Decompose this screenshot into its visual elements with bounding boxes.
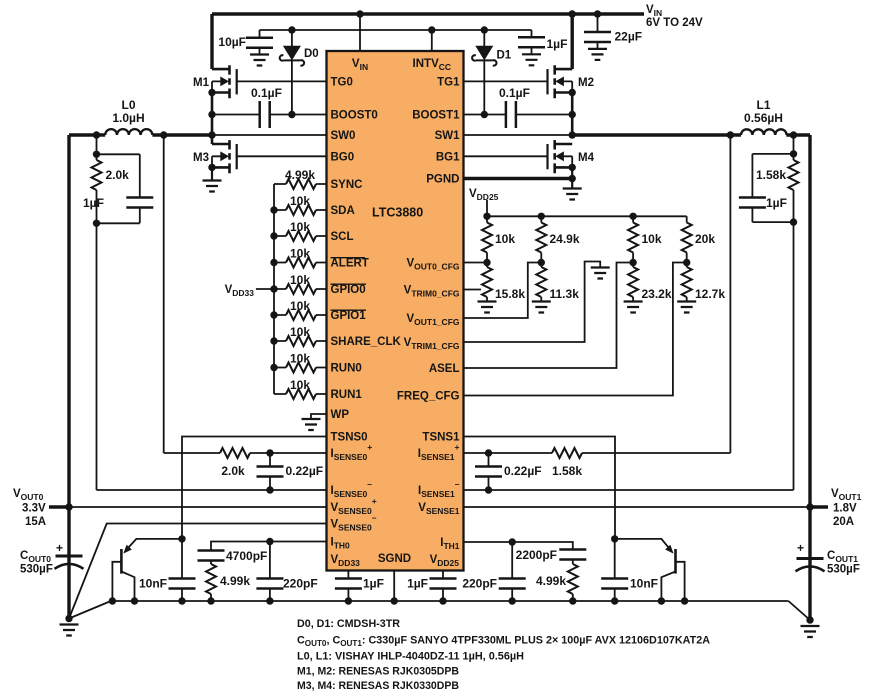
resistor 1.58k L1 [793,154,795,222]
resistor 10k GPIO1 [274,314,327,316]
wire L1 sense to ISENSE1- [793,222,795,490]
resistor 4.99k right [572,560,574,602]
node 22uF junction [594,10,601,17]
svg-text:SHARE_CLK: SHARE_CLK [331,336,402,348]
svg-text:4.99k: 4.99k [220,574,250,588]
capacitor 1uF L0 [139,154,141,223]
svg-text:23.2k: 23.2k [642,287,672,301]
wire D1 cathode to BOOST1 [483,60,485,114]
svg-text:1.8V: 1.8V [833,503,857,515]
capacitor 1uF VDD25 [442,571,444,602]
wire ISENSE1+ row [464,452,731,454]
wire ISENSE0+ row [164,452,327,454]
svg-text:VIN: VIN [646,4,662,18]
resistor 10k SDA [274,209,327,211]
svg-text:10k: 10k [290,194,310,208]
resistor 15.8k [486,263,488,302]
node COUT0 ground junction [65,615,72,622]
wire VIN pin [359,14,361,51]
svg-text:4.99k: 4.99k [536,574,566,588]
svg-text:6V TO 24V: 6V TO 24V [646,17,703,29]
svg-text:VDD33: VDD33 [225,284,255,298]
wire TG0 [237,80,327,82]
wire VTRIM0_CFG stub [464,289,482,291]
wire VOUT1_CFG [464,263,542,319]
svg-text:D1: D1 [497,50,512,62]
wire VOUT0_CFG [464,262,488,264]
svg-text:1µF: 1µF [547,37,568,51]
svg-text:12.7k: 12.7k [695,287,725,301]
svg-text:15.8k: 15.8k [495,287,525,301]
wire BG0 [237,155,327,157]
wire PGND thick [464,177,573,180]
resistor 4.99k left [210,561,212,602]
node SW0 M junction [208,131,215,138]
svg-text:BOOST0: BOOST0 [331,110,378,122]
resistor 10k ALERT [274,262,327,264]
svg-text:1.58k: 1.58k [552,464,582,478]
svg-text:0.22µF: 0.22µF [286,464,324,478]
wire VSENSE0+ row [69,506,327,508]
node Q2 collector rail junction [658,597,665,604]
svg-text:20A: 20A [833,516,854,528]
wire VOUT0 bus thick [67,135,70,619]
capacitor 220pF left [269,542,271,602]
svg-text:TG1: TG1 [437,77,460,89]
svg-text:530µF: 530µF [827,564,860,576]
capacitor 0.22uF left [269,453,271,490]
wire ITH0 row [211,542,327,551]
svg-text:4700pF: 4700pF [226,549,267,563]
wire M1 source to SW node [211,93,214,136]
inductor L1 [741,129,787,135]
ground under M3 [203,181,222,192]
wire TSNS0 [182,437,327,539]
ground under 10uF [250,55,269,66]
wire WP to ground [311,414,327,419]
svg-text:10k: 10k [495,232,515,246]
svg-text:RUN1: RUN1 [331,389,363,401]
wire SW1 thin [464,134,573,136]
node SW1 M junction [569,131,576,138]
svg-text:GPIO0: GPIO0 [331,284,366,296]
svg-text:220pF: 220pF [283,577,318,591]
wire L1 sense bottom [752,221,793,223]
capacitor 1uF L1 [751,154,753,222]
wire M3 drain stub [211,135,214,144]
node 4.99k right rail junction [569,597,576,604]
svg-text:BG1: BG1 [436,152,460,164]
wire BG1 [464,155,548,157]
svg-text:LTC3880: LTC3880 [372,206,423,220]
ground COUT1 [801,626,820,637]
ground under 22uF [588,49,607,60]
wire VIN top rail [212,12,644,15]
resistor 10k SHARE_CLK [274,340,327,342]
svg-text:10nF: 10nF [630,577,658,591]
svg-text:TSNS0: TSNS0 [331,432,368,444]
node divider4 junction [683,259,690,266]
wire VOUT1 stub [810,505,828,508]
node M1 source BOOST0 junction [208,111,215,118]
svg-text:22µF: 22µF [615,30,643,44]
capacitor COUT1 [797,557,824,560]
capacitor 10nF left [181,539,183,601]
resistor 10k divider1 [486,216,488,262]
resistor 10k RUN1 [274,393,327,395]
ground WP [302,419,321,430]
wire L0 sense to ISENSE0- [96,223,98,490]
wire M1 drain to VIN rail [210,14,213,69]
node M2 source BOOST1 junction [569,111,576,118]
svg-text:SYNC: SYNC [331,179,363,191]
capacitor 1uF VDD33 [347,571,349,602]
svg-text:ASEL: ASEL [429,363,460,375]
node 220pF left rail junction [266,597,273,604]
wire INTVCC rail [260,29,532,31]
resistor 10k RUN0 [274,367,327,369]
svg-text:D0: D0 [304,48,319,60]
wire ITH1 row [464,542,573,550]
svg-text:3.3V: 3.3V [22,503,46,515]
svg-text:M1, M2: RENESAS RJK0305DPB: M1, M2: RENESAS RJK0305DPB [297,666,459,678]
wire VSENSE0- row [69,524,327,619]
svg-text:10k: 10k [290,247,310,261]
svg-text:D0, D1: CMDSH-3TR: D0, D1: CMDSH-3TR [297,618,400,630]
svg-text:COUT1: COUT1 [827,550,858,564]
resistor 23.2k [632,263,634,302]
wire VDD33 stub [256,288,274,290]
svg-text:COUT0, COUT1: C330µF SANYO 4TP: COUT0, COUT1: C330µF SANYO 4TPF330ML PLU… [297,635,710,649]
svg-text:COUT0: COUT0 [20,550,51,564]
capacitor 1uF INTVCC [531,30,533,54]
resistor 20k divider4 [686,216,688,262]
svg-text:VDD25: VDD25 [469,188,499,202]
svg-text:2.0k: 2.0k [106,168,130,182]
node L1 left junction [727,131,734,138]
svg-text:1.58k: 1.58k [756,168,786,182]
svg-text:10nF: 10nF [139,577,167,591]
node Q2 base rail junction [681,597,688,604]
svg-text:PGND: PGND [426,174,459,186]
node COUT1 ground junction [806,616,813,623]
ground under M4 [563,189,582,200]
svg-text:2.0k: 2.0k [221,464,245,478]
wire TSNS1 [464,437,616,539]
wire L1 sense left vertical [729,135,731,453]
wire ground rail [69,601,810,620]
svg-text:10k: 10k [290,273,310,287]
node Q1 collector rail junction [131,597,138,604]
node L0 sense bottom junction [93,220,100,227]
wire VOUT0 stub [49,505,69,508]
capacitor 0.22uF right [488,453,490,490]
svg-text:0.22µF: 0.22µF [504,464,542,478]
node L0 left junction [93,131,100,138]
capacitor 22uF [597,14,599,49]
node 4.99k left rail junction [207,597,214,604]
resistor 12.7k [686,263,688,302]
node INTVCC pin junction [428,26,435,33]
node L0 sense top junction [93,151,100,158]
node L1 sense top junction [790,150,797,157]
svg-text:10k: 10k [290,299,310,313]
svg-text:1µF: 1µF [407,577,428,591]
wire INTVCC pin [431,30,433,51]
svg-text:0.1µF: 0.1µF [499,86,530,100]
wire ISENSE0- row [97,489,327,491]
transistor Q1 left BJT [128,539,183,549]
svg-text:L0, L1: VISHAY IHLP-4040DZ-11: L0, L1: VISHAY IHLP-4040DZ-11 1µH, 0.56µ… [297,651,524,663]
resistor 10k SCL [274,235,327,237]
wire SW1 thick [572,135,810,620]
capacitor 2200pF [559,550,586,560]
svg-text:15A: 15A [25,516,46,528]
wire L0 right junction to ISENSE0+ [163,135,165,453]
resistor 1.58k sense [552,448,582,458]
wire FREQ_CFG [464,263,687,396]
svg-text:1.0µH: 1.0µH [112,111,144,125]
resistor 2.0k L0 [96,154,98,223]
svg-text:20k: 20k [695,232,715,246]
svg-text:M3, M4: RENESAS RJK0330DPB: M3, M4: RENESAS RJK0330DPB [297,680,459,692]
svg-text:530µF: 530µF [20,564,53,576]
ground under 23.2k [624,302,643,313]
node VOUT1 junction [806,503,813,510]
node L1 sense bottom junction [790,218,797,225]
capacitor 10nF right [614,539,616,601]
wire ASEL [464,263,634,369]
capacitor 0.1uF right [464,114,573,116]
svg-text:10k: 10k [642,232,662,246]
wire VDD25 stub [486,200,488,216]
svg-text:1µF: 1µF [766,196,787,210]
diode D0 [280,30,304,66]
node D0 BOOST0 junction [288,111,295,118]
wire SW0 thin to pin [212,134,327,136]
svg-text:1µF: 1µF [83,196,104,210]
svg-text:0.1µF: 0.1µF [251,86,282,100]
resistor 4.99k SYNC [274,183,327,185]
wire D0 cathode to BOOST0 [291,60,293,114]
resistor 10k divider3 [632,216,634,262]
resistor 10k GPIO0 [274,288,327,290]
node 1uF VDD33 rail junction [345,597,352,604]
svg-text:VOUT1: VOUT1 [831,488,862,502]
node divider3 junction [629,259,636,266]
svg-text:4.99k: 4.99k [285,168,315,182]
node 10nF right rail junction [611,597,618,604]
svg-text:VOUT0: VOUT0 [13,488,44,502]
svg-text:10k: 10k [290,325,310,339]
node D1 BOOST1 junction [481,111,488,118]
svg-text:SGND: SGND [378,553,411,565]
transistor M2 [548,65,576,98]
svg-text:220pF: 220pF [462,577,497,591]
svg-text:2200pF: 2200pF [516,548,557,562]
wire M3 source to ground [211,167,213,180]
node divider2 junction [538,259,545,266]
ladder bus [273,184,275,394]
IC U1 LTC3880 body [327,51,464,571]
resistor 2.0k sense [220,448,250,458]
svg-text:10k: 10k [290,220,310,234]
capacitor COUT0 [56,555,83,558]
node TSNS0 junction [178,535,185,542]
svg-text:BG0: BG0 [331,152,355,164]
svg-text:TG0: TG0 [331,77,353,89]
svg-text:FREQ_CFG: FREQ_CFG [397,391,460,403]
wire M4 source to ground [571,167,573,188]
capacitor 220pF right [511,542,513,601]
svg-text:24.9k: 24.9k [550,232,580,246]
node divider1 junction [483,259,490,266]
node L1 right junction [790,131,797,138]
diode D1 [472,30,496,66]
wire M2 drain to VIN rail [571,14,574,69]
wire SW0 thick [69,133,212,136]
svg-text:M4: M4 [578,152,595,164]
svg-text:11.3k: 11.3k [550,287,580,301]
ground under 12.7k [677,302,696,313]
svg-text:L1: L1 [756,98,770,112]
svg-text:RUN0: RUN0 [331,363,362,375]
svg-text:SDA: SDA [331,205,355,217]
wire ISENSE1- row [464,489,794,491]
svg-text:10µF: 10µF [218,35,246,49]
node TSNS1 junction [611,535,618,542]
wire divider bus [487,215,687,217]
svg-text:SW0: SW0 [331,130,356,142]
resistor 11.3k [540,263,542,302]
capacitor 4700pF [198,551,225,561]
transistor M3 [208,140,236,173]
wire L0 sense top [97,135,140,154]
svg-text:1µF: 1µF [363,577,384,591]
svg-text:SW1: SW1 [435,130,461,142]
transistor Q2 right BJT [615,539,670,549]
capacitor 10uF [259,30,261,55]
svg-text:+: + [797,541,804,555]
node VIN pin junction [356,10,363,17]
svg-text:L0: L0 [121,98,135,112]
node M2 drain junction [569,10,576,17]
ground VTRIM1_CFG [591,268,610,279]
node L0 right junction [160,131,167,138]
wire VTRIM1_CFG to ground [464,262,601,343]
ground under 1uF [522,54,541,65]
svg-text:10k: 10k [290,352,310,366]
capacitor 0.1uF left [212,114,327,116]
node 1uF VDD25 rail junction [439,597,446,604]
svg-text:10k: 10k [290,378,310,392]
ground under 11.3k [532,302,551,313]
svg-text:WP: WP [331,409,350,421]
node VOUT0 junction [65,503,72,510]
ground under 15.8k [478,302,497,313]
node M4 source PGND junction [569,175,576,182]
wire SGND [393,571,395,602]
svg-text:ALERT: ALERT [331,258,369,270]
svg-text:SCL: SCL [331,231,354,243]
wire L1 sense top [752,135,793,154]
svg-text:+: + [56,541,63,555]
wire VSENSE1 row [464,506,811,508]
node 10nF left rail junction [178,597,185,604]
svg-text:GPIO1: GPIO1 [331,310,367,322]
node SGND rail junction [391,597,398,604]
wire TG1 [464,80,548,82]
node 220pF right rail junction [509,597,516,604]
resistor 24.9k divider2 [540,216,542,262]
transistor M4 [548,140,576,173]
inductor L0 [105,129,152,135]
svg-text:M3: M3 [193,152,209,164]
ground COUT0 [60,625,79,636]
svg-text:BOOST1: BOOST1 [412,110,460,122]
svg-text:0.56µH: 0.56µH [744,111,783,125]
node Q1 base rail junction [109,597,116,604]
wire M2 source to SW node [571,93,574,136]
wire L0 sense bottom [97,222,140,224]
transistor M1 [208,65,236,98]
svg-text:M2: M2 [578,77,594,89]
svg-text:M1: M1 [193,77,210,89]
